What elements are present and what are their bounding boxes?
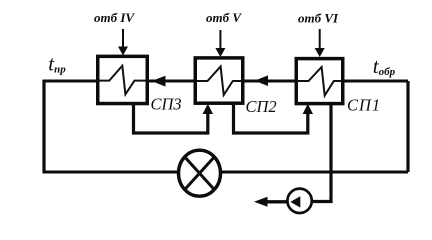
svg-text:СП2: СП2: [246, 97, 277, 116]
svg-text:tпр: tпр: [48, 52, 66, 76]
svg-text:отб IV: отб IV: [94, 10, 135, 25]
svg-text:СП1: СП1: [347, 96, 381, 115]
svg-text:отб V: отб V: [206, 10, 242, 25]
svg-text:tобр: tобр: [373, 54, 396, 78]
svg-text:СП3: СП3: [151, 95, 182, 114]
svg-text:отб VI: отб VI: [298, 11, 339, 26]
